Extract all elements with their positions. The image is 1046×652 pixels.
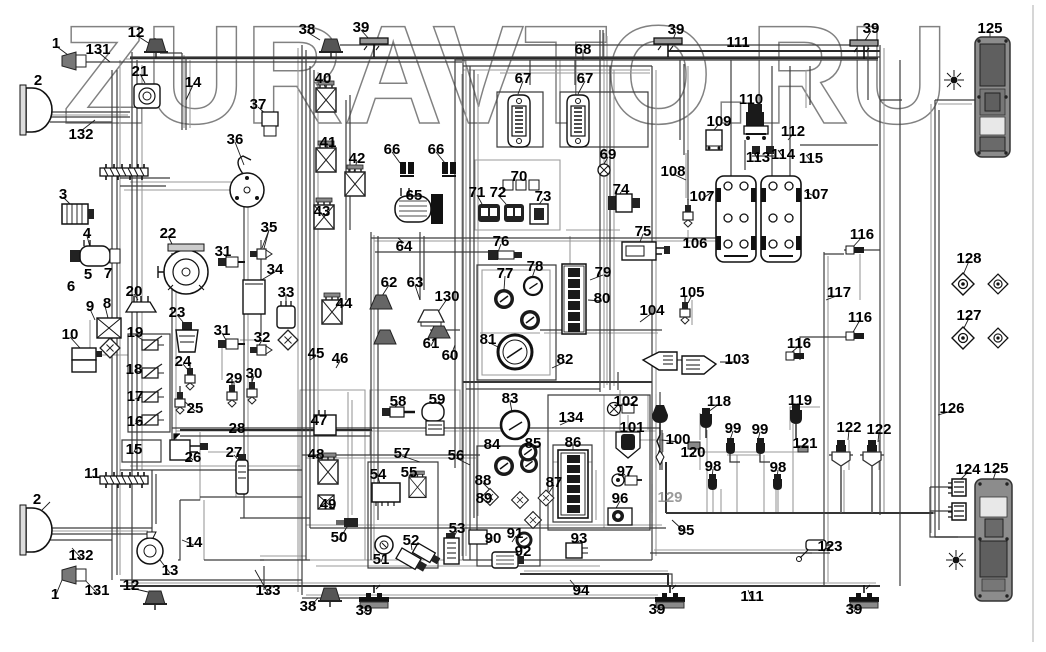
svg-text:132: 132	[68, 126, 93, 143]
svg-text:78: 78	[527, 258, 544, 275]
svg-text:4: 4	[83, 225, 92, 242]
svg-text:45: 45	[308, 345, 325, 362]
svg-text:116: 116	[850, 226, 874, 243]
svg-text:39: 39	[863, 20, 880, 37]
svg-text:113: 113	[746, 149, 770, 166]
svg-text:46: 46	[332, 350, 349, 367]
svg-text:101: 101	[619, 419, 644, 436]
svg-text:89: 89	[476, 490, 493, 507]
svg-text:35: 35	[261, 219, 278, 236]
svg-text:36: 36	[227, 131, 244, 148]
svg-text:1: 1	[51, 586, 59, 603]
svg-text:114: 114	[771, 146, 796, 163]
svg-text:75: 75	[635, 223, 652, 240]
svg-text:12: 12	[128, 24, 145, 41]
svg-text:92: 92	[515, 543, 532, 560]
svg-text:115: 115	[799, 150, 823, 167]
svg-text:64: 64	[396, 238, 413, 255]
svg-text:83: 83	[502, 390, 519, 407]
svg-text:3: 3	[59, 186, 67, 203]
svg-text:122: 122	[836, 419, 861, 436]
svg-text:8: 8	[103, 295, 111, 312]
svg-text:37: 37	[250, 96, 267, 113]
svg-text:38: 38	[299, 21, 316, 38]
svg-text:7: 7	[104, 265, 112, 282]
svg-text:39: 39	[353, 19, 370, 36]
svg-text:66: 66	[384, 141, 401, 158]
svg-text:39: 39	[356, 602, 373, 619]
svg-text:54: 54	[370, 466, 387, 483]
svg-text:82: 82	[557, 351, 574, 368]
svg-text:102: 102	[613, 393, 638, 410]
svg-text:14: 14	[185, 74, 202, 91]
svg-text:56: 56	[448, 447, 465, 464]
svg-text:127: 127	[956, 307, 981, 324]
svg-text:126: 126	[939, 400, 964, 417]
svg-text:59: 59	[429, 391, 446, 408]
svg-text:49: 49	[320, 496, 337, 513]
svg-text:117: 117	[827, 284, 851, 301]
svg-text:107: 107	[689, 188, 714, 205]
svg-text:71: 71	[469, 184, 486, 201]
svg-text:74: 74	[613, 181, 630, 198]
svg-text:58: 58	[390, 393, 407, 410]
svg-text:52: 52	[403, 532, 420, 549]
svg-text:123: 123	[817, 538, 842, 555]
svg-text:31: 31	[214, 322, 231, 339]
svg-text:31: 31	[215, 243, 232, 260]
svg-text:12: 12	[123, 577, 140, 594]
svg-text:88: 88	[475, 472, 492, 489]
svg-text:28: 28	[229, 420, 246, 437]
svg-text:65: 65	[406, 187, 423, 204]
svg-text:124: 124	[955, 461, 981, 478]
svg-text:24: 24	[175, 353, 192, 370]
svg-text:84: 84	[484, 436, 501, 453]
svg-text:85: 85	[525, 435, 542, 452]
svg-text:22: 22	[160, 225, 177, 242]
svg-text:93: 93	[571, 530, 588, 547]
svg-text:53: 53	[449, 520, 466, 537]
svg-text:51: 51	[373, 551, 390, 568]
svg-text:112: 112	[781, 123, 805, 140]
svg-text:50: 50	[331, 529, 348, 546]
svg-text:87: 87	[546, 474, 563, 491]
svg-text:128: 128	[956, 250, 981, 267]
svg-text:62: 62	[381, 274, 398, 291]
svg-text:47: 47	[311, 412, 328, 429]
svg-text:17: 17	[127, 388, 144, 405]
svg-text:14: 14	[186, 534, 203, 551]
svg-text:39: 39	[668, 21, 685, 38]
svg-text:119: 119	[788, 392, 812, 409]
svg-text:132: 132	[68, 547, 93, 564]
svg-text:91: 91	[507, 525, 524, 542]
svg-text:130: 130	[434, 288, 459, 305]
svg-text:98: 98	[770, 459, 787, 476]
svg-text:121: 121	[792, 435, 817, 452]
svg-text:1: 1	[52, 35, 60, 52]
svg-text:79: 79	[595, 264, 612, 281]
svg-text:63: 63	[407, 274, 424, 291]
svg-text:97: 97	[617, 463, 634, 480]
svg-text:29: 29	[226, 370, 243, 387]
svg-text:81: 81	[480, 331, 497, 348]
svg-text:98: 98	[705, 458, 722, 475]
svg-text:26: 26	[185, 449, 202, 466]
svg-text:105: 105	[679, 284, 704, 301]
svg-text:95: 95	[678, 522, 695, 539]
svg-text:111: 111	[726, 34, 749, 51]
svg-text:125: 125	[983, 460, 1008, 477]
svg-text:20: 20	[126, 283, 143, 300]
svg-text:30: 30	[246, 365, 263, 382]
svg-text:80: 80	[594, 290, 611, 307]
svg-text:6: 6	[67, 278, 75, 295]
svg-text:125: 125	[977, 20, 1002, 37]
svg-text:48: 48	[308, 446, 325, 463]
svg-text:40: 40	[315, 70, 332, 87]
svg-text:2: 2	[33, 491, 41, 508]
svg-text:107: 107	[803, 186, 828, 203]
svg-text:41: 41	[320, 134, 337, 151]
svg-text:19: 19	[127, 324, 144, 341]
svg-text:5: 5	[84, 266, 92, 283]
svg-text:69: 69	[600, 146, 617, 163]
svg-text:25: 25	[187, 400, 204, 417]
svg-text:23: 23	[169, 304, 186, 321]
svg-text:10: 10	[62, 326, 79, 343]
svg-text:38: 38	[300, 598, 317, 615]
svg-text:134: 134	[558, 409, 584, 426]
svg-text:116: 116	[787, 335, 811, 352]
svg-text:120: 120	[680, 444, 705, 461]
svg-text:131: 131	[84, 582, 109, 599]
svg-text:70: 70	[511, 168, 528, 185]
svg-text:21: 21	[132, 63, 149, 80]
svg-text:86: 86	[565, 434, 582, 451]
svg-text:68: 68	[575, 41, 592, 58]
svg-text:16: 16	[127, 413, 144, 430]
svg-text:27: 27	[226, 444, 243, 461]
svg-text:11: 11	[84, 465, 100, 482]
svg-text:61: 61	[423, 335, 440, 352]
svg-text:106: 106	[682, 235, 707, 252]
svg-text:103: 103	[724, 351, 749, 368]
svg-text:99: 99	[725, 420, 742, 437]
svg-text:32: 32	[254, 329, 271, 346]
svg-text:55: 55	[401, 464, 418, 481]
svg-text:2: 2	[34, 72, 42, 89]
svg-text:96: 96	[612, 490, 629, 507]
svg-text:118: 118	[707, 393, 731, 410]
svg-text:129: 129	[657, 489, 682, 506]
svg-text:90: 90	[485, 530, 502, 547]
svg-text:57: 57	[394, 445, 411, 462]
svg-text:43: 43	[314, 203, 331, 220]
svg-text:109: 109	[706, 113, 731, 130]
svg-text:60: 60	[442, 347, 459, 364]
svg-text:116: 116	[848, 309, 872, 326]
svg-text:77: 77	[497, 265, 514, 282]
svg-text:66: 66	[428, 141, 445, 158]
svg-text:13: 13	[162, 562, 179, 579]
svg-text:110: 110	[739, 91, 763, 108]
svg-text:99: 99	[752, 421, 769, 438]
svg-text:67: 67	[577, 70, 594, 87]
svg-text:111: 111	[740, 588, 763, 605]
svg-text:108: 108	[660, 163, 685, 180]
svg-text:94: 94	[573, 582, 590, 599]
svg-text:33: 33	[278, 284, 295, 301]
svg-text:104: 104	[639, 302, 665, 319]
svg-text:39: 39	[846, 601, 863, 618]
svg-text:131: 131	[85, 41, 110, 58]
svg-text:73: 73	[535, 188, 552, 205]
svg-text:42: 42	[349, 150, 366, 167]
svg-text:15: 15	[126, 441, 143, 458]
svg-text:44: 44	[336, 295, 353, 312]
svg-text:67: 67	[515, 70, 532, 87]
svg-text:72: 72	[490, 184, 507, 201]
svg-text:18: 18	[126, 361, 143, 378]
svg-text:39: 39	[649, 601, 666, 618]
svg-text:34: 34	[267, 261, 284, 278]
svg-text:122: 122	[866, 421, 891, 438]
svg-text:9: 9	[86, 298, 94, 315]
svg-text:76: 76	[493, 233, 510, 250]
svg-text:133: 133	[255, 582, 280, 599]
